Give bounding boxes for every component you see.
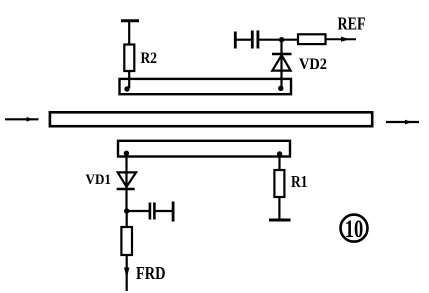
capacitor (bottom, right terminal) xyxy=(172,202,175,222)
node (top winding left) xyxy=(124,86,129,91)
capacitor (bottom) xyxy=(150,203,155,220)
node (VD1 / capacitor / resistor junction) xyxy=(124,208,129,213)
input arrow (left) xyxy=(5,117,39,122)
wire (terminal to capacitor) xyxy=(235,39,251,41)
svg-text:VD2: VD2 xyxy=(299,56,327,73)
figure number 10 xyxy=(341,214,368,243)
svg-text:VD1: VD1 xyxy=(86,172,112,188)
power rail xyxy=(121,19,139,22)
diode VD2 xyxy=(272,54,327,73)
wire (node to FRD resistor) xyxy=(126,211,128,228)
wire (R1 to ground) xyxy=(278,197,280,219)
resistor (REF series) xyxy=(298,34,326,44)
svg-text:FRD: FRD xyxy=(136,263,166,283)
resistor R2 xyxy=(124,45,157,72)
diode VD1 xyxy=(86,172,137,189)
bottom winding bar xyxy=(118,141,290,157)
svg-text:REF: REF xyxy=(338,14,366,34)
ground xyxy=(269,219,291,222)
node (cap / VD2 / resistor junction) xyxy=(279,37,284,42)
wire (node to capacitor) xyxy=(127,210,149,212)
capacitor (top, left terminal) xyxy=(234,32,237,49)
FRD output arrow xyxy=(124,255,129,291)
wire (R2 to top winding) xyxy=(128,71,130,88)
svg-text:R1: R1 xyxy=(291,172,308,191)
resistor R1 xyxy=(274,170,307,197)
wire (rail to R2) xyxy=(128,21,130,45)
output arrow (right) xyxy=(386,120,419,125)
REF output arrow xyxy=(326,37,357,42)
node (bottom winding right) xyxy=(277,151,282,156)
node (top winding right) xyxy=(278,86,283,91)
bus bar (core) xyxy=(50,112,372,126)
wire (VD1 to node) xyxy=(125,172,127,211)
wire (capacitor to right terminal) xyxy=(155,210,174,212)
wire (bottom winding to R1) xyxy=(278,153,280,171)
resistor (FRD series) xyxy=(121,227,132,255)
node (bottom winding left) xyxy=(124,151,129,156)
capacitor (top) xyxy=(252,31,258,49)
wire (bottom winding to VD1) xyxy=(125,152,127,172)
top winding bar xyxy=(120,79,292,94)
wire (junction to VD2) xyxy=(280,40,282,87)
svg-text:10: 10 xyxy=(345,214,364,243)
wire (capacitor to series resistor) xyxy=(258,39,298,41)
svg-text:R2: R2 xyxy=(141,50,158,67)
